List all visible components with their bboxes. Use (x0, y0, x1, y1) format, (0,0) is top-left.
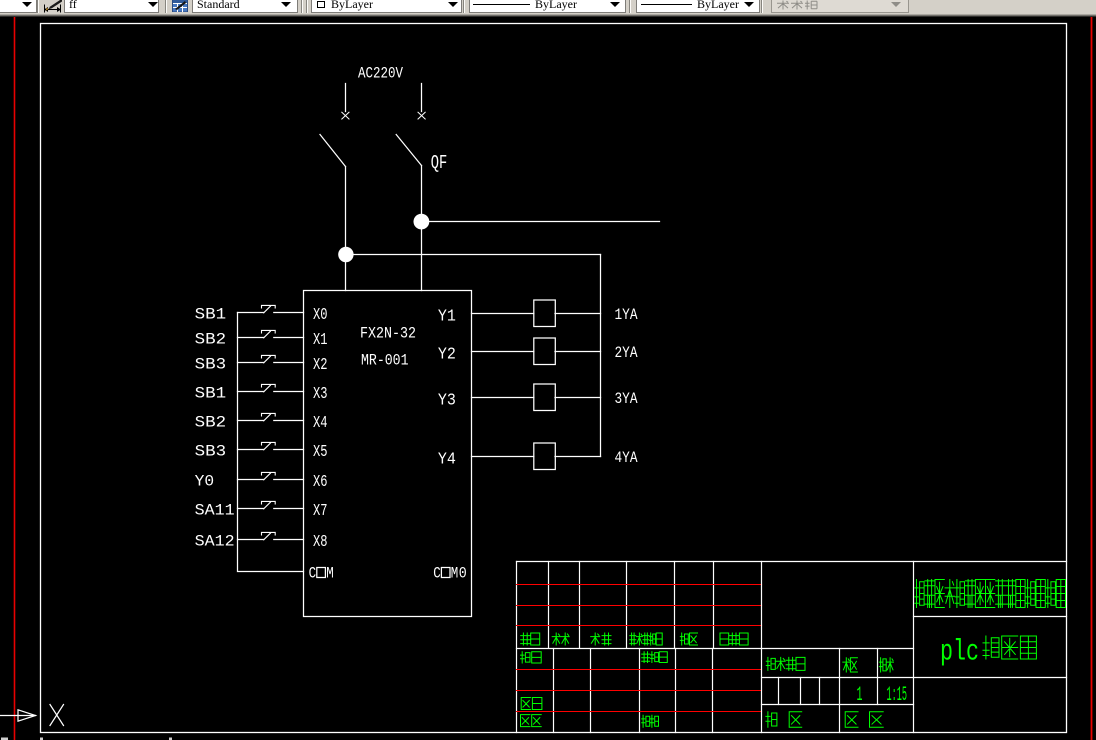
dim style icon button (42, 0, 63, 14)
svg-text:2YA: 2YA (615, 344, 638, 362)
svg-text:X4: X4 (313, 413, 328, 432)
svg-text:0: 0 (459, 564, 467, 582)
wire node A to right (422, 221, 660, 223)
quantity value 1 (857, 684, 863, 707)
bottom screen text remnants (1, 738, 172, 740)
svg-text:Y4: Y4 (438, 449, 456, 468)
terminal x mark N (418, 112, 425, 119)
solenoid valve coil 3YA (534, 384, 556, 411)
solenoid valve coil 1YA (534, 300, 556, 327)
UCS X-axis arrow (0, 710, 36, 721)
solenoid label 2YA (615, 344, 638, 362)
UCS X label (50, 705, 64, 726)
svg-text:X3: X3 (313, 384, 328, 403)
svg-text:C: C (309, 564, 317, 582)
input device label SB3 (X5) (195, 443, 227, 461)
svg-text:MR-001: MR-001 (361, 352, 409, 370)
pin label Y2 (438, 344, 456, 363)
partial combo (cut) (0, 0, 37, 13)
solenoid label 1YA (615, 306, 638, 324)
svg-text:Y0: Y0 (195, 473, 215, 491)
input device label SB1 (X0) (195, 306, 227, 324)
input common bus (238, 313, 304, 572)
svg-text:Y3: Y3 (438, 390, 456, 409)
power label AC220V (358, 65, 403, 83)
solenoid valve coil 2YA (534, 338, 556, 365)
PLC type label MR-001 (361, 352, 409, 370)
label 处数 (552, 633, 569, 645)
svg-text:AC220V: AC220V (358, 65, 403, 83)
pin label X4 (313, 413, 328, 432)
solenoid label 3YA (615, 390, 638, 408)
svg-text:SB1: SB1 (195, 385, 227, 403)
color combo "ByLayer" (311, 0, 462, 13)
wire PLC to solenoid 2YA (472, 351, 534, 353)
svg-text:3YA: 3YA (615, 390, 638, 408)
wire solenoid 4YA to bus (555, 456, 601, 458)
linetype combo "ByLayer" (469, 0, 626, 13)
svg-text:SB2: SB2 (195, 331, 227, 349)
contact Y0 wire+blade (X6) (238, 472, 304, 479)
pin label X3 (313, 384, 328, 403)
label 比例 (879, 658, 893, 672)
svg-text:plc: plc (940, 636, 979, 670)
breaker QF pole 2 blade (396, 135, 421, 166)
junction dot node B (338, 247, 353, 262)
pin label Y4 (438, 449, 456, 468)
svg-text:SB3: SB3 (195, 356, 227, 374)
junction dot node A (414, 214, 430, 230)
pin label X2 (313, 355, 328, 374)
toolbar separator (761, 0, 763, 13)
PLC U1 FX2N-32 MR-001 body (304, 291, 472, 617)
toolbar separator (37, 0, 39, 13)
label 工艺 (521, 715, 542, 727)
svg-text:X7: X7 (313, 501, 328, 520)
wire L phase lead (345, 84, 347, 112)
wire solenoid 2YA to bus (555, 351, 601, 353)
PLC type label FX2N-32 (360, 325, 416, 343)
svg-text:QF: QF (431, 152, 448, 174)
svg-text:X1: X1 (313, 330, 328, 349)
label 标准化 (642, 652, 668, 663)
svg-text:SB3: SB3 (195, 443, 227, 461)
svg-text:X2: X2 (313, 355, 328, 374)
label 年月日 (720, 633, 748, 645)
svg-text:1:15: 1:15 (887, 684, 908, 707)
table style icon button (172, 0, 189, 12)
right red screen line (1091, 17, 1093, 740)
plot style combo (disabled) (771, 0, 909, 13)
input device label SB2 (X4) (195, 414, 227, 432)
contact SB3 wire+blade (X5) (238, 442, 304, 449)
svg-text:C: C (433, 564, 441, 582)
wire PLC to solenoid 1YA (472, 313, 534, 315)
label 第 张 (845, 712, 883, 727)
contact SB2 wire+blade (X4) (238, 413, 304, 420)
input device label SA12 (X8) (195, 533, 235, 551)
solenoid label 4YA (615, 449, 638, 467)
wire solenoid 1YA to bus (555, 313, 601, 315)
breaker label QF (431, 152, 448, 174)
text style combo "ff" (64, 0, 159, 13)
svg-text:X0: X0 (313, 305, 328, 324)
input device label SB1 (X3) (195, 385, 227, 403)
svg-text:Y2: Y2 (438, 344, 456, 363)
contact SB2 wire+blade (X1) (238, 330, 304, 337)
svg-text:Y1: Y1 (438, 306, 456, 325)
input device label SB3 (X2) (195, 356, 227, 374)
svg-text:X8: X8 (313, 532, 328, 551)
contact SA12 wire+blade (X8) (238, 532, 304, 539)
label 签名 (680, 633, 697, 645)
svg-text:4YA: 4YA (615, 449, 638, 467)
svg-text:SA12: SA12 (195, 533, 235, 551)
svg-text:M: M (451, 564, 459, 582)
svg-text:SB1: SB1 (195, 306, 227, 324)
project title 智能石材切割液压控制系统的设计 (915, 580, 1066, 608)
input device label SA11 (X7) (195, 502, 235, 520)
pin label COM0 (right) (433, 564, 467, 582)
label 审核 (521, 698, 542, 710)
label 数量 (843, 658, 858, 672)
breaker QF pole 1 blade (320, 135, 346, 167)
input device label Y0 (X6) (195, 473, 215, 491)
solenoid valve coil 4YA (534, 443, 556, 470)
svg-text:X5: X5 (313, 442, 328, 461)
pin label X5 (313, 442, 328, 461)
label 共 张 (766, 712, 802, 727)
pin label X1 (313, 330, 328, 349)
wire solenoid 3YA to bus (555, 397, 601, 399)
drawing title plc接线图 (940, 636, 1036, 670)
label 更改文件号 (630, 633, 662, 645)
svg-text:SB2: SB2 (195, 414, 227, 432)
wire node B to output bus (346, 254, 601, 256)
pin label X8 (313, 532, 328, 551)
label 标记 (521, 633, 540, 645)
pin label X7 (313, 501, 328, 520)
label 批准 (642, 715, 659, 727)
contact SB1 wire+blade (X0) (238, 305, 304, 312)
toolbar separator (165, 0, 167, 13)
style combo "Standard" (192, 0, 298, 13)
scale value 1:15 (887, 684, 908, 707)
toolbar separators (301, 0, 303, 13)
pin label COM (left) (309, 564, 334, 582)
terminal x mark L (342, 112, 349, 119)
toolbar strip (0, 0, 1096, 17)
pin label X6 (313, 472, 328, 491)
left red screen line (14, 17, 16, 740)
svg-text:SA11: SA11 (195, 502, 235, 520)
pin label Y1 (438, 306, 456, 325)
contact SA11 wire+blade (X7) (238, 501, 304, 508)
pin label X0 (313, 305, 328, 324)
wire pole2 to PLC (421, 166, 423, 291)
svg-text:1YA: 1YA (615, 306, 638, 324)
toolbar separator (463, 0, 465, 13)
wire PLC to solenoid 4YA (472, 456, 534, 458)
toolbar separator (629, 0, 631, 13)
label 阶段标记 (766, 657, 805, 670)
label 设计 (521, 652, 542, 663)
svg-text:1: 1 (857, 684, 863, 707)
contact SB1 wire+blade (X3) (238, 384, 304, 391)
wire pole1 to PLC (345, 167, 347, 291)
input device label SB2 (X1) (195, 331, 227, 349)
svg-text:M: M (326, 564, 334, 582)
svg-text:FX2N-32: FX2N-32 (360, 325, 416, 343)
title block outline (517, 562, 1067, 733)
contact SB3 wire+blade (X2) (238, 355, 304, 362)
label 分区 (591, 633, 611, 645)
lineweight combo "ByLayer" (636, 0, 760, 13)
output bus vertical (600, 255, 602, 457)
svg-text:X6: X6 (313, 472, 328, 491)
wire N phase lead (421, 84, 423, 112)
wire PLC to solenoid 3YA (472, 397, 534, 399)
pin label Y3 (438, 390, 456, 409)
